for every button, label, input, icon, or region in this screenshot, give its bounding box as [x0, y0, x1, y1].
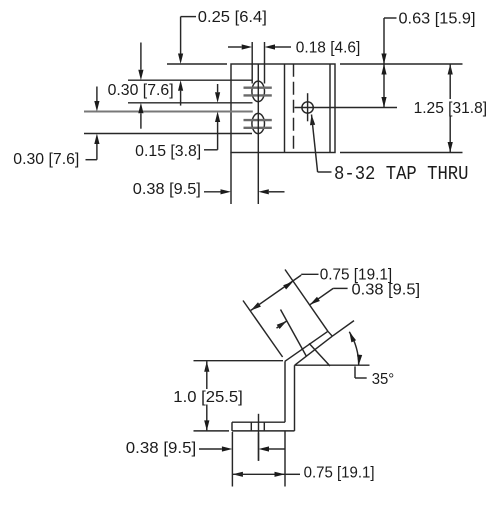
extension line slot2 top: [84, 111, 253, 113]
extension line leg left end below: [231, 432, 233, 487]
slot 2 edge lines thick gray: [244, 119, 272, 121]
slot vertical centerline: [257, 65, 259, 153]
dimension 0.38 top view arrows: [204, 191, 221, 193]
svg-text:0.25 [6.4]: 0.25 [6.4]: [198, 9, 267, 26]
dimension 0.15 arrows and leader: [217, 84, 219, 92]
bracket flange end cap: [328, 331, 332, 336]
bracket web left edge: [284, 361, 286, 422]
extension line bottom edge right: [340, 152, 463, 154]
svg-text:0.75 [19.1]: 0.75 [19.1]: [304, 465, 375, 482]
dimension 0.38 bottom arrows: [199, 448, 222, 450]
angle reference horizontal line: [295, 364, 370, 366]
dimension 0.38 flange arrows and leader: [333, 287, 347, 289]
slot 1 ellipse: [252, 81, 265, 102]
flange slot tick 2 with extension: [309, 343, 330, 366]
angle flange extension line: [332, 321, 354, 337]
dimension 0.30 lower arrows and leader: [96, 87, 98, 102]
extension line slot left side: [251, 42, 253, 84]
dimension 1.25 arrows: [448, 64, 453, 75]
extension line flange end perpendicular: [285, 270, 328, 332]
extension line slot right side: [264, 42, 266, 84]
flange slot tick 1 with extension: [281, 310, 307, 357]
leader 8-32 TAP THRU: [310, 115, 315, 126]
extension line part left edge below: [230, 153, 232, 205]
leg slot tick 2: [263, 422, 265, 431]
extension line web left below: [284, 431, 286, 487]
extension line slot centerline below: [257, 153, 259, 205]
svg-text:0.30 [7.6]: 0.30 [7.6]: [108, 82, 174, 99]
bracket bottom leg left end: [231, 422, 233, 431]
tapped hole horizontal centerline: [295, 107, 398, 109]
svg-text:1.0 [25.5]: 1.0 [25.5]: [173, 389, 243, 406]
bend line (dashed) top view: [293, 64, 295, 153]
bracket web right edge: [294, 365, 296, 431]
extension line bend level left: [194, 360, 284, 362]
svg-text:35°: 35°: [372, 371, 395, 388]
slot 2 ellipse: [252, 113, 265, 133]
angle dimension arc with arrows: [349, 332, 358, 365]
dimension 0.18 arrows: [228, 46, 242, 48]
slot 1 edge lines thick gray: [244, 86, 272, 88]
extension line slot1 top: [128, 79, 253, 81]
angle leader 35deg: [354, 366, 356, 378]
dimension 0.30 upper arrows: [140, 43, 142, 70]
part top-view outline: [231, 64, 335, 153]
extension line leg bottom left: [194, 430, 230, 432]
bracket bottom leg bottom edge: [232, 430, 295, 432]
svg-text:0.38 [9.5]: 0.38 [9.5]: [126, 440, 196, 457]
svg-text:1.25 [31.8]: 1.25 [31.8]: [414, 100, 488, 117]
dimension 0.75 bottom arrows: [232, 472, 243, 477]
svg-text:0.38 [9.5]: 0.38 [9.5]: [352, 282, 421, 299]
extension line bend perpendicular: [243, 301, 283, 358]
bracket flange inner edge 35deg: [295, 336, 333, 365]
svg-text:0.18 [4.6]: 0.18 [4.6]: [296, 39, 361, 56]
leg slot tick 1: [250, 422, 252, 431]
tapped hole 8-32 circle: [302, 102, 313, 113]
extension line hole centerline below: [258, 433, 260, 461]
part top-view inner edge line: [284, 64, 286, 153]
svg-text:0.15 [3.8]: 0.15 [3.8]: [135, 143, 201, 160]
tapped hole vertical centerline: [307, 93, 309, 121]
part top-view right flange edge line: [329, 64, 331, 153]
extension line slot2 bottom: [84, 133, 252, 135]
dimension 0.75 flange arrows: [251, 302, 261, 310]
bracket flange outer edge 35deg: [285, 331, 328, 361]
dimension 0.25 leader and arrows: [181, 16, 196, 18]
extension line slot1 bottom: [128, 102, 253, 104]
extension line top edge left: [167, 63, 227, 65]
extension line top edge right: [340, 63, 463, 65]
svg-text:0.63 [15.9]: 0.63 [15.9]: [399, 10, 476, 27]
dimension 1.0 arrows: [204, 361, 209, 372]
svg-text:8-32 TAP THRU: 8-32 TAP THRU: [334, 163, 469, 185]
dimension 0.63 leader and arrows: [384, 17, 397, 19]
bracket bottom leg top edge: [232, 421, 285, 423]
leg hole centerline: [258, 414, 260, 461]
svg-text:0.30 [7.6]: 0.30 [7.6]: [13, 151, 79, 168]
svg-text:0.38 [9.5]: 0.38 [9.5]: [133, 181, 201, 198]
